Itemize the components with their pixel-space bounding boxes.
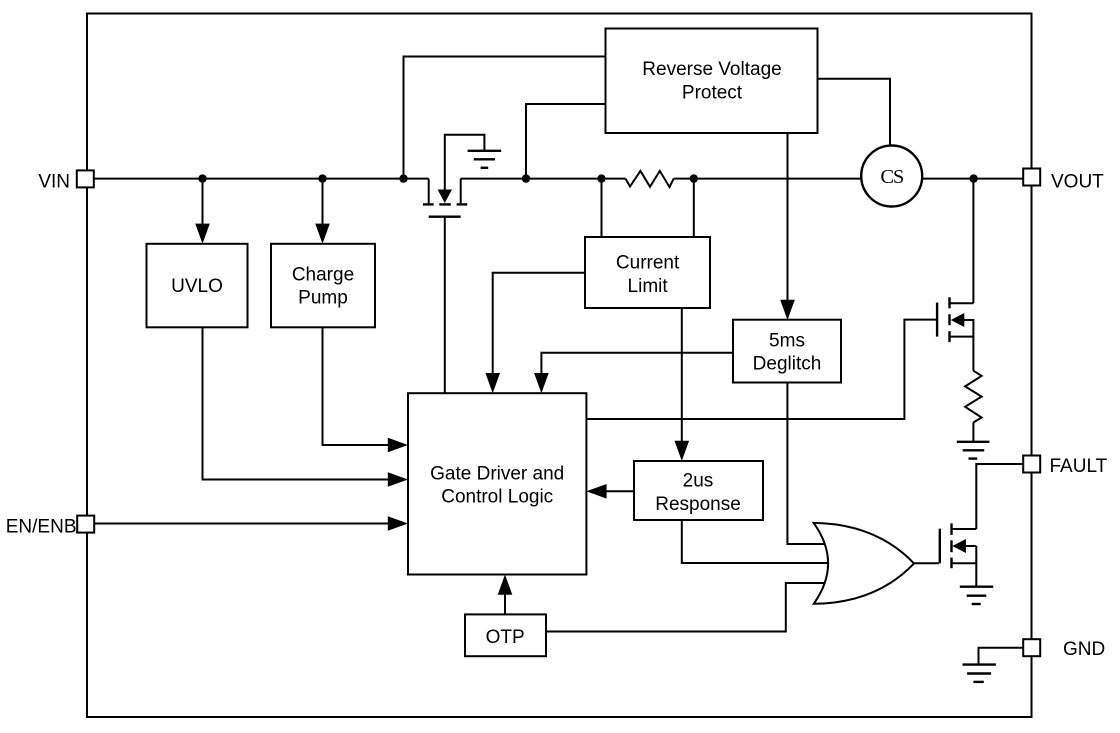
svg-text:Limit: Limit: [628, 276, 669, 297]
wire pass FET gate to Gate Driver: [444, 217, 446, 394]
block Reverse Voltage Protect: [606, 29, 818, 134]
svg-text:GND: GND: [1063, 639, 1105, 660]
transistor Q3 pass FET drain lead: [460, 179, 462, 204]
wire EN/ENB to Gate Driver: [95, 523, 391, 525]
svg-text:Control Logic: Control Logic: [441, 487, 553, 508]
arrow OTP into Gate Driver: [498, 575, 513, 595]
wire OTP to OR gate input 3: [546, 583, 831, 632]
arrow Current Limit into Gate Driver: [485, 373, 500, 393]
arrow UVLO into Gate Driver: [388, 472, 408, 487]
wire Reverse Voltage Protect output to CS sensor: [817, 79, 890, 147]
arrow body of pass FET Q3: [438, 190, 452, 204]
arrow into Charge Pump: [315, 224, 330, 244]
transistor Q2 gate bar: [939, 529, 941, 564]
resistor R2 (vertical): [965, 371, 982, 423]
wire resistor left node to Current Limit: [601, 179, 603, 240]
block Gate Driver and Control Logic: [408, 393, 586, 574]
svg-text:VOUT: VOUT: [1051, 171, 1104, 192]
wire FAULT to Q2 drain: [976, 464, 1023, 529]
block 2us Response: [634, 461, 763, 520]
node dot VOUT branch: [969, 174, 977, 182]
wire resistor R2 to ground: [972, 423, 974, 442]
node dot VIN-RVP2: [522, 174, 530, 182]
transistor Q2 source stub: [952, 546, 977, 563]
node dot resistor right: [690, 174, 698, 182]
wire node VIN to UVLO: [202, 179, 204, 225]
wire resistor right node to Current Limit: [693, 179, 695, 240]
transistor Q1 source to resistor R2: [972, 337, 974, 371]
svg-text:EN/ENB: EN/ENB: [6, 517, 77, 538]
svg-text:5ms: 5ms: [769, 331, 805, 352]
transistor Q3 body wire to ground: [445, 135, 485, 190]
transistor Q1 body wire: [950, 320, 974, 337]
wire 2us Response to OR gate input 2: [682, 520, 834, 563]
wire node VIN to Reverse Voltage Protect upper: [404, 57, 609, 179]
arrow 5ms Deglitch into Gate Driver: [534, 373, 549, 393]
wire OTP to Gate Driver bottom: [504, 592, 506, 614]
wire 2us Response to Gate Driver arrow: [604, 490, 634, 492]
svg-text:OTP: OTP: [486, 627, 525, 648]
pin square GND: [1023, 639, 1040, 656]
svg-text:Gate Driver and: Gate Driver and: [430, 464, 564, 485]
pin square VIN: [77, 170, 94, 187]
transistor Q3 gate plate: [429, 215, 461, 217]
block UVLO: [147, 244, 248, 327]
arrow 2us Response into Gate Driver: [586, 484, 606, 499]
wire VIN rail right segment to VOUT: [674, 178, 1024, 180]
svg-text:Response: Response: [655, 494, 741, 515]
arrow body of Q2: [952, 539, 966, 553]
block 5ms Deglitch: [733, 320, 841, 383]
transistor Q3 center plate: [439, 203, 451, 205]
wire VIN rail left segment: [95, 178, 429, 180]
transistor Q3 pass FET source lead: [428, 179, 430, 204]
resistor R1 sense (horizontal): [626, 171, 674, 187]
wire UVLO to Gate Driver: [203, 327, 391, 479]
svg-text:2us: 2us: [683, 471, 714, 492]
svg-text:UVLO: UVLO: [171, 276, 223, 297]
transistor Q1 channel bar segments: [948, 297, 950, 308]
svg-text:CS: CS: [880, 166, 903, 188]
OR gate U1: [814, 523, 914, 604]
arrow body of Q1: [951, 313, 965, 327]
arrow into 5ms Deglitch: [780, 300, 795, 320]
wire Current Limit to Gate Driver top: [493, 273, 585, 375]
wire Reverse Voltage Protect to 5ms Deglitch: [787, 133, 789, 303]
wire Current Limit to 2us Response: [681, 308, 683, 443]
wire node VIN to Charge Pump: [322, 179, 324, 225]
arrow into UVLO: [195, 224, 210, 244]
current sensor CS circle: [861, 146, 922, 207]
pin square EN/ENB: [77, 516, 94, 533]
pin square FAULT: [1023, 456, 1040, 473]
transistor Q3 drain plate: [457, 203, 468, 205]
transistor Q1 gate bar: [936, 303, 938, 337]
svg-text:Charge: Charge: [292, 264, 354, 285]
block Charge Pump: [271, 244, 375, 327]
wire 5ms Deglitch to Gate Driver top: [541, 353, 733, 375]
block Current Limit: [585, 237, 710, 308]
wire VOUT node to Q1 drain: [972, 179, 974, 304]
svg-text:FAULT: FAULT: [1050, 456, 1108, 477]
ground symbol under Q2: [960, 586, 993, 588]
node dot VIN-RVP1: [399, 174, 407, 182]
wire node VIN to Reverse Voltage Protect lower: [526, 104, 608, 179]
transistor Q3 source plate: [423, 203, 434, 205]
wire Charge Pump to Gate Driver: [323, 327, 391, 445]
wire OR gate output to Q2 gate: [914, 562, 939, 564]
ground symbol under resistor R2: [957, 441, 990, 443]
wire 5ms Deglitch to OR gate input 1: [787, 383, 830, 545]
wire VIN rail mid segment: [461, 178, 626, 180]
node dot VIN-UVLO: [198, 174, 206, 182]
node dot VIN-ChargePump: [318, 174, 326, 182]
svg-text:VIN: VIN: [38, 172, 70, 193]
transistor Q2 channel bar segments: [950, 523, 952, 535]
arrow into 2us Response: [675, 441, 690, 461]
svg-text:Current: Current: [616, 252, 680, 273]
svg-text:Pump: Pump: [298, 287, 348, 308]
node dot resistor left: [597, 174, 605, 182]
ground symbol at GND pin: [963, 663, 996, 665]
transistor Q1 drain stub: [950, 302, 974, 304]
svg-text:Protect: Protect: [682, 82, 743, 103]
arrow Charge Pump into Gate Driver: [388, 438, 408, 453]
ground symbol near Q3: [468, 150, 502, 152]
pin square VOUT: [1023, 169, 1040, 186]
transistor Q2 body wire: [964, 545, 976, 547]
wire Gate Driver to Q1 gate: [586, 320, 936, 419]
wire GND pin to ground: [979, 648, 1024, 665]
svg-text:Reverse Voltage: Reverse Voltage: [642, 59, 781, 80]
svg-text:Deglitch: Deglitch: [753, 354, 822, 375]
transistor Q2 drain stub: [952, 528, 977, 530]
arrow EN/ENB into Gate Driver: [388, 516, 408, 531]
block OTP: [465, 614, 546, 656]
transistor Q2 source to ground: [975, 563, 977, 586]
